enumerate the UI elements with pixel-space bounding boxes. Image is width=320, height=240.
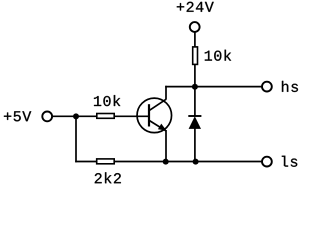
resistor R2 10k horizontal <box>97 114 114 119</box>
wire diode branch bottom <box>194 129 196 162</box>
wire +5V branch down <box>75 116 77 162</box>
transistor Q1 <box>137 98 172 132</box>
net +24V label <box>177 2 214 12</box>
wire +5V terminal to R2 <box>53 115 98 117</box>
wire terminal to R1 <box>194 32 196 47</box>
wire hs rail horizontal <box>165 86 261 88</box>
wire R2 to base <box>115 115 150 117</box>
diode D1 cathode bar <box>188 115 201 117</box>
wire collector drop from rail <box>165 86 167 100</box>
diode D1 <box>188 116 201 129</box>
transistor Q1 emitter arrow <box>158 124 167 131</box>
node junction on hs rail <box>192 84 198 90</box>
net +5V label <box>4 111 31 121</box>
net hs label <box>282 81 298 92</box>
net ls label <box>282 156 297 167</box>
transistor Q1 collector lead <box>149 99 166 110</box>
resistor R1 10k vertical <box>193 47 198 65</box>
terminal +5V <box>42 112 52 122</box>
terminal ls <box>262 157 272 167</box>
value label 10k (R2) <box>94 95 120 106</box>
transistor Q1 base bar <box>148 104 150 126</box>
terminal +24V <box>190 22 200 32</box>
resistor R3 2k2 horizontal <box>97 159 115 164</box>
terminal hs <box>262 82 272 92</box>
node junction emitter-rail <box>163 159 169 165</box>
transistor Q1 envelope circle <box>137 98 172 132</box>
wire emitter down <box>165 130 167 162</box>
value label 10k (R1) <box>205 50 231 61</box>
node junction diode-rail <box>193 159 199 165</box>
diode D1 anode triangle <box>189 116 201 129</box>
wire ls bottom rail <box>75 161 261 163</box>
wire diode branch top <box>194 87 196 116</box>
value label 2k2 (R3) <box>95 172 121 183</box>
node junction at +5V branch <box>73 113 79 119</box>
transistor Q1 emitter lead <box>149 121 166 131</box>
wire R1 to hs rail <box>194 65 196 88</box>
